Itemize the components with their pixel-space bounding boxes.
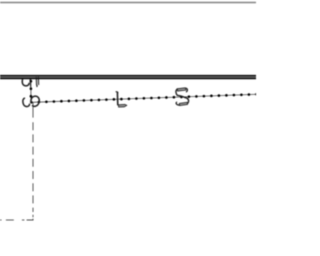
dashed parcel boundary vertical (solid start) bbox=[32, 103, 34, 118]
dashed parcel boundary corner bbox=[27, 219, 33, 220]
letter S (rotated 90, tucked under road line) bbox=[22, 77, 39, 87]
dashed parcel boundary horizontal dash bbox=[22, 219, 25, 221]
dashed parcel boundary horizontal dash bbox=[0, 219, 2, 221]
letter S (rotated 90, at boundary junction) bbox=[23, 96, 39, 106]
dashed parcel boundary vertical short dash bbox=[32, 215, 34, 217]
dashed parcel boundary horizontal dash bbox=[6, 219, 14, 221]
boundary line horizontal (thin, with point symbols) bbox=[31, 94, 256, 102]
map sheet top border bbox=[0, 1, 256, 3]
dashed parcel boundary vertical bbox=[32, 122, 34, 212]
letter S on boundary line bbox=[176, 88, 189, 106]
boundary points on horizontal line bbox=[30, 93, 258, 104]
road double line (upper) bbox=[0, 75, 256, 77]
boundary line vertical (thin, with point symbols) bbox=[30, 79, 32, 102]
boundary points on vertical line bbox=[30, 80, 33, 98]
letter L on boundary line bbox=[116, 91, 127, 107]
road double line (lower) bbox=[0, 77, 256, 79]
